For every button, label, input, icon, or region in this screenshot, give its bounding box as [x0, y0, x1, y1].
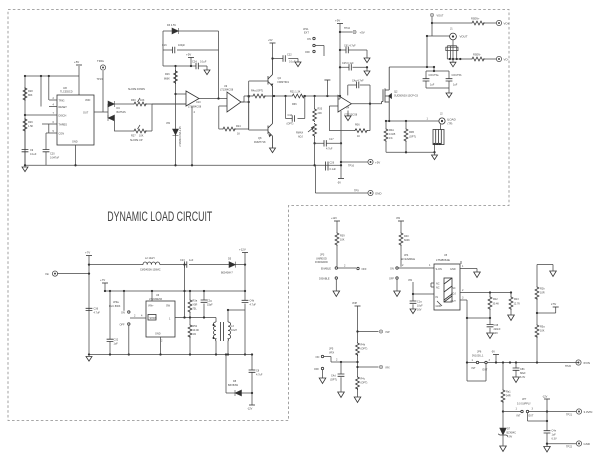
svg-text:1uF: 1uF — [453, 84, 458, 87]
svg-text:10K: 10K — [140, 99, 145, 102]
svg-text:BZX84W: BZX84W — [228, 384, 239, 387]
svg-text:R4a (OPT): R4a (OPT) — [251, 90, 263, 93]
svg-text:IN: IN — [436, 296, 439, 299]
svg-text:DYNAMIC LOAD CIRCUIT: DYNAMIC LOAD CIRCUIT — [107, 209, 212, 224]
svg-text:OFF: OFF — [362, 268, 367, 271]
svg-text:+5V: +5V — [375, 161, 380, 165]
svg-text:4.7uF: 4.7uF — [250, 304, 257, 307]
svg-text:10K: 10K — [540, 330, 545, 333]
svg-text:4.7uF: 4.7uF — [94, 312, 101, 315]
svg-text:4.9V: 4.9V — [507, 436, 512, 439]
svg-text:C36: C36 — [94, 308, 99, 311]
svg-text:LT1210CS8: LT1210CS8 — [344, 114, 358, 117]
svg-text:SLOPE DOWN: SLOPE DOWN — [128, 88, 145, 91]
svg-text:EXT: EXT — [483, 369, 488, 372]
svg-text:GND: GND — [72, 141, 78, 144]
svg-text:VO+: VO+ — [504, 22, 510, 26]
svg-text:DISABLE: DISABLE — [319, 278, 330, 281]
svg-text:R66: R66 — [292, 103, 297, 106]
svg-text:75L: 75L — [193, 308, 198, 311]
svg-text:R39: R39 — [340, 235, 345, 238]
svg-text:NC: NC — [436, 283, 440, 286]
svg-text:ON: ON — [307, 38, 311, 41]
svg-text:1.5K: 1.5K — [28, 125, 33, 128]
svg-text:R21 1.3K: R21 1.3K — [290, 91, 301, 94]
svg-text:JP3: JP3 — [320, 254, 325, 257]
svg-text:IRX: IRX — [386, 367, 391, 370]
svg-text:BAT54S: BAT54S — [117, 111, 126, 114]
svg-text:C2g: C2g — [207, 300, 212, 303]
svg-text:6VIN: 6VIN — [584, 361, 590, 365]
svg-text:2.5V: 2.5V — [551, 303, 556, 306]
svg-text:ON: ON — [316, 356, 320, 359]
svg-text:1K: 1K — [357, 135, 360, 138]
svg-text:VOUT: VOUT — [437, 15, 444, 18]
svg-text:LTM8064E: LTM8064E — [436, 258, 450, 262]
svg-text:THRES: THRES — [59, 124, 68, 127]
svg-text:OFF: OFF — [314, 368, 319, 371]
svg-text:-12V: -12V — [542, 396, 548, 399]
svg-text:+7V: +7V — [100, 278, 105, 282]
svg-text:CMD4D06-100MC: CMD4D06-100MC — [140, 269, 161, 272]
svg-text:R4c: R4c — [361, 378, 366, 381]
svg-text:RSEN-: RSEN- — [473, 54, 481, 57]
svg-text:Rb3: Rb3 — [514, 298, 519, 301]
svg-text:604K: 604K — [404, 239, 410, 242]
svg-text:10R: 10R — [540, 292, 545, 295]
svg-text:C23: C23 — [180, 259, 185, 262]
svg-text:+7V: +7V — [85, 251, 90, 255]
svg-text:0.025: 0.025 — [389, 133, 396, 136]
svg-text:R3a: R3a — [193, 300, 198, 303]
svg-text:TP22: TP22 — [566, 446, 573, 449]
svg-text:TP10: TP10 — [344, 27, 351, 30]
svg-text:R40: R40 — [404, 235, 409, 238]
svg-text:1K: 1K — [237, 133, 240, 136]
svg-text:OFF: OFF — [305, 51, 310, 54]
svg-text:C4b: C4b — [250, 300, 255, 303]
svg-text:Ra1: Ra1 — [506, 391, 511, 394]
svg-text:(OPT): (OPT) — [287, 123, 294, 126]
svg-text:FORWARD: FORWARD — [315, 261, 328, 264]
svg-text:TRIG: TRIG — [59, 100, 65, 103]
svg-text:R0A: R0A — [389, 129, 394, 132]
svg-text:866K: 866K — [164, 78, 170, 81]
svg-text:TP21: TP21 — [566, 414, 573, 417]
svg-text:0.1uF: 0.1uF — [30, 153, 37, 156]
svg-text:+12V: +12V — [239, 248, 246, 252]
svg-text:NC: NC — [436, 287, 440, 290]
svg-text:OFF: OFF — [389, 278, 394, 281]
svg-text:JP6: JP6 — [477, 351, 482, 354]
svg-text:OFF: OFF — [120, 324, 125, 327]
svg-text:OUT: OUT — [83, 112, 89, 115]
svg-text:R5b: R5b — [193, 325, 198, 328]
svg-text:10uF: 10uF — [417, 305, 423, 308]
svg-text:C38: C38 — [494, 324, 499, 327]
svg-text:+5V: +5V — [360, 31, 365, 35]
svg-text:C17: C17 — [329, 138, 334, 141]
svg-text:C20: C20 — [50, 153, 55, 156]
svg-text:10K: 10K — [139, 135, 144, 138]
svg-text:SUD50N03-10CP-G3: SUD50N03-10CP-G3 — [394, 94, 419, 97]
svg-text:FMMT718: FMMT718 — [254, 141, 266, 144]
svg-text:R27: R27 — [131, 135, 136, 138]
svg-text:(OPT): (OPT) — [361, 382, 368, 385]
svg-text:D3 4.5V: D3 4.5V — [167, 24, 176, 27]
svg-text:COUT5b: COUT5b — [452, 74, 462, 77]
svg-text:6.3V: 6.3V — [520, 376, 525, 379]
svg-text:1uF: 1uF — [430, 84, 435, 87]
svg-text:TP9: TP9 — [354, 190, 359, 193]
svg-text:EXT: EXT — [304, 32, 309, 35]
svg-text:VIN: VIN — [166, 122, 170, 125]
svg-text:C1a: C1a — [417, 301, 422, 304]
svg-text:(OPT): (OPT) — [361, 348, 368, 351]
svg-text:-5V: -5V — [337, 182, 341, 185]
svg-text:TP20: TP20 — [565, 365, 572, 368]
svg-text:15pF: 15pF — [207, 304, 213, 307]
svg-text:+12V: +12V — [331, 217, 337, 220]
svg-text:ADJ: ADJ — [298, 136, 303, 139]
svg-text:JP9a: JP9a — [113, 301, 119, 304]
svg-text:JP4: JP4 — [404, 254, 409, 257]
svg-text:EN ENABLE: EN ENABLE — [401, 258, 415, 261]
svg-text:6.3V: 6.3V — [552, 438, 557, 441]
svg-text:10uH: 10uH — [231, 329, 237, 332]
svg-text:R06: R06 — [355, 124, 360, 127]
svg-text:20K: 20K — [318, 112, 323, 115]
svg-text:TLC555CD: TLC555CD — [60, 91, 73, 94]
svg-text:EXT: EXT — [529, 415, 534, 418]
svg-text:COUT5a: COUT5a — [429, 74, 439, 77]
svg-text:0.047uF: 0.047uF — [50, 157, 60, 160]
svg-text:DISCH: DISCH — [59, 115, 67, 118]
svg-text:GND: GND — [450, 268, 456, 271]
svg-text:(TP): (TP) — [448, 123, 453, 126]
svg-text:4.7uF: 4.7uF — [326, 148, 333, 151]
svg-text:16V: 16V — [417, 309, 422, 312]
svg-text:54R: 54R — [506, 395, 511, 398]
svg-text:RMAX: RMAX — [296, 132, 304, 135]
svg-text:+5V: +5V — [74, 60, 79, 64]
svg-text:3.3VIN: 3.3VIN — [584, 410, 593, 414]
svg-text:Vin: Vin — [45, 272, 50, 276]
svg-text:INP: INP — [386, 331, 391, 334]
svg-text:GND: GND — [375, 192, 381, 196]
svg-text:C61 4.7uF: C61 4.7uF — [344, 45, 356, 48]
svg-text:FMMT619: FMMT619 — [278, 81, 290, 84]
svg-text:VIN: VIN — [396, 217, 400, 220]
svg-text:L2 10uH: L2 10uH — [145, 257, 155, 260]
svg-text:R30: R30 — [131, 99, 136, 102]
svg-text:NC: NC — [452, 287, 456, 290]
svg-text:U8: U8 — [63, 86, 67, 90]
svg-text:0.1uF: 0.1uF — [200, 61, 207, 64]
svg-text:ON: ON — [390, 268, 394, 271]
svg-text:LT1634CCS8-1.25: LT1634CCS8-1.25 — [179, 126, 182, 147]
svg-text:R28: R28 — [28, 90, 33, 93]
svg-text:R2b: R2b — [540, 288, 545, 291]
svg-text:R26: R26 — [165, 73, 170, 76]
svg-text:SLOPE UP: SLOPE UP — [130, 139, 143, 142]
svg-text:10V: 10V — [494, 332, 499, 335]
svg-text:VDD: VDD — [85, 99, 90, 102]
svg-text:1uF: 1uF — [114, 343, 119, 346]
svg-text:5.0 SUPPLY: 5.0 SUPPLY — [517, 403, 531, 406]
svg-text:5V1000_1: 5V1000_1 — [472, 355, 484, 358]
svg-text:220nF: 220nF — [494, 328, 502, 331]
svg-text:VRX: VRX — [329, 352, 334, 355]
svg-text:-12V: -12V — [247, 408, 253, 411]
svg-text:0.1uF: 0.1uF — [330, 168, 337, 171]
svg-text:Y5R: Y5R — [193, 304, 198, 307]
svg-text:R29: R29 — [28, 121, 33, 124]
svg-text:C22: C22 — [287, 54, 292, 57]
svg-text:68uF: 68uF — [520, 372, 526, 375]
svg-text:GND: GND — [436, 305, 442, 308]
svg-text:JP5: JP5 — [329, 348, 334, 351]
svg-text:INT: INT — [472, 367, 477, 370]
svg-text:TRIG: TRIG — [97, 59, 105, 63]
svg-text:R33: R33 — [318, 108, 323, 111]
svg-text:C16: C16 — [162, 44, 167, 47]
svg-text:LT1394CS8: LT1394CS8 — [220, 89, 234, 92]
svg-text:10K: 10K — [340, 239, 345, 242]
svg-text:ENABLE: ENABLE — [321, 268, 331, 271]
svg-text:+5V: +5V — [186, 53, 191, 57]
svg-text:R0B: R0B — [409, 131, 414, 134]
svg-text:30.4K: 30.4K — [493, 303, 500, 306]
svg-text:C24: C24 — [192, 61, 197, 64]
svg-text:C4e: C4e — [552, 430, 557, 433]
svg-text:1uF: 1uF — [552, 434, 557, 437]
svg-text:C32: C32 — [114, 339, 119, 342]
svg-text:-5V: -5V — [491, 351, 495, 354]
svg-text:C26: C26 — [330, 162, 335, 165]
svg-text:GND: GND — [584, 442, 590, 446]
svg-text:VNP: VNP — [352, 302, 357, 305]
svg-text:+5V: +5V — [335, 19, 340, 23]
svg-text:C25 0.1uF: C25 0.1uF — [342, 62, 354, 65]
svg-text:10.0K: 10.0K — [193, 329, 200, 332]
svg-text:LT1930ES5: LT1930ES5 — [149, 298, 163, 301]
svg-text:(OPT): (OPT) — [330, 379, 337, 382]
svg-text:JP7: JP7 — [522, 398, 527, 401]
svg-text:R4b: R4b — [361, 344, 366, 347]
svg-text:OUT: OUT — [451, 300, 457, 303]
svg-text:R24: R24 — [236, 125, 241, 128]
svg-text:+5V: +5V — [268, 39, 273, 42]
svg-text:Rb2: Rb2 — [493, 298, 498, 301]
svg-text:12.7K: 12.7K — [514, 303, 521, 306]
svg-text:VIN: VIN — [408, 279, 412, 282]
svg-text:VIN+: VIN+ — [148, 305, 154, 308]
svg-text:B0540W-7: B0540W-7 — [221, 272, 233, 275]
svg-text:1uF: 1uF — [189, 259, 194, 262]
svg-text:C4d: C4d — [331, 375, 336, 378]
svg-text:(OPT): (OPT) — [409, 136, 416, 139]
svg-text:C4d: C4d — [288, 114, 293, 117]
svg-text:C4g 4.7nF: C4g 4.7nF — [352, 80, 364, 83]
svg-text:ON: ON — [121, 312, 125, 315]
svg-text:BZX84C: BZX84C — [507, 432, 517, 435]
svg-text:SHDN: SHDN — [150, 317, 157, 320]
svg-text:GND: GND — [155, 333, 161, 336]
svg-text:CON: CON — [59, 133, 65, 136]
svg-text:TP13: TP13 — [97, 78, 104, 81]
svg-text:INT: INT — [517, 415, 522, 418]
svg-text:LT1394CS8: LT1394CS8 — [188, 106, 202, 109]
svg-text:TP16: TP16 — [348, 165, 355, 168]
svg-text:C8b: C8b — [520, 368, 525, 371]
svg-text:4.7uF: 4.7uF — [256, 374, 263, 377]
svg-text:86K: 86K — [28, 94, 33, 97]
svg-text:SW: SW — [166, 305, 171, 308]
svg-text:VO-: VO- — [504, 58, 509, 62]
svg-text:S-ON: S-ON — [436, 268, 442, 271]
svg-text:100pF: 100pF — [178, 44, 186, 47]
svg-text:ILOAD: ILOAD — [447, 118, 456, 122]
svg-text:RESET: RESET — [59, 106, 68, 109]
svg-text:R5a: R5a — [540, 326, 545, 329]
svg-text:DLC 8003: DLC 8003 — [109, 305, 121, 308]
svg-text:VOUT: VOUT — [460, 35, 468, 39]
svg-text:U10: U10 — [196, 101, 201, 104]
svg-text:RSEN+: RSEN+ — [471, 18, 480, 21]
